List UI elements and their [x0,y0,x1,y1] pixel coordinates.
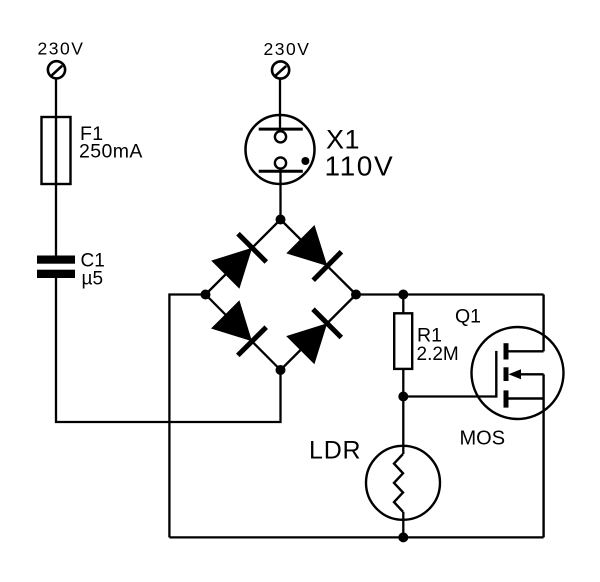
wire R1 to gate node [402,369,404,397]
bridge wires (diamond) [206,220,357,371]
wire terminal to lamp X1 [279,78,281,131]
node bridge top [276,215,286,225]
terminal 230V center [272,61,289,78]
node bridge right [351,290,361,300]
diode D4 (bottom to right) [286,309,341,364]
fuse F1 [42,117,71,184]
wire gate node down to LDR [402,397,404,455]
svg-text:230V: 230V [264,39,311,59]
diode D2 (top to right) [286,225,341,280]
MOSFET drain lead [506,350,544,352]
MOSFET source lead [506,397,544,399]
diode D3 (left to bottom) [211,300,266,355]
label F1 250mA [79,123,143,163]
node bridge bottom [276,365,286,375]
node below R1 [398,392,408,402]
wire fuse to C1 [55,184,57,256]
svg-text:µ5: µ5 [82,269,104,290]
wire node to R1 [402,295,404,314]
svg-text:110V: 110V [325,151,395,182]
wire C1 down and right to bridge bottom [56,278,281,422]
svg-text:230V: 230V [38,39,85,59]
transistor Q1 MOSFET body circle [472,327,564,419]
LDR zigzag element [394,454,403,512]
resistor R1 [394,313,412,369]
terminal 230V left [48,61,65,78]
capacitor C1 [37,256,75,279]
right rail top segment (to drain) [542,295,544,352]
svg-text:Q1: Q1 [455,306,481,328]
top rail wire (bridge right to MOS drain rail) [356,293,544,295]
bottom rail wire [169,536,543,538]
svg-text:250mA: 250mA [79,141,143,163]
MOSFET gate line [495,351,497,398]
svg-text:2.2M: 2.2M [417,344,459,365]
svg-text:MOS: MOS [460,428,506,450]
svg-text:LDR: LDR [309,436,361,464]
node R1 top [398,290,408,300]
wire LDR to bottom rail [402,512,404,538]
svg-text:R1: R1 [417,324,442,346]
LDR circle [366,446,440,520]
wire terminal to fuse [55,78,57,117]
label R1 2.2M [417,324,459,365]
node bridge left [201,290,211,300]
wire lamp to bridge top [279,169,281,220]
right rail body-source segment [542,374,544,398]
lamp X1 gas dot [301,157,309,165]
MOSFET channel dashes [504,343,509,407]
MOSFET body arrow [509,369,522,379]
label X1 110V [325,124,395,181]
right rail source down to bottom rail [542,399,544,538]
diode D1 (left to top) [211,234,266,289]
label C1 u5 [81,251,105,290]
lamp X1 [246,115,315,184]
wire bridge left corner down to bottom rail [169,295,205,538]
wire node to MOS gate [403,395,496,397]
node bottom rail / LDR [398,532,408,542]
MOSFET body lead [520,373,544,375]
